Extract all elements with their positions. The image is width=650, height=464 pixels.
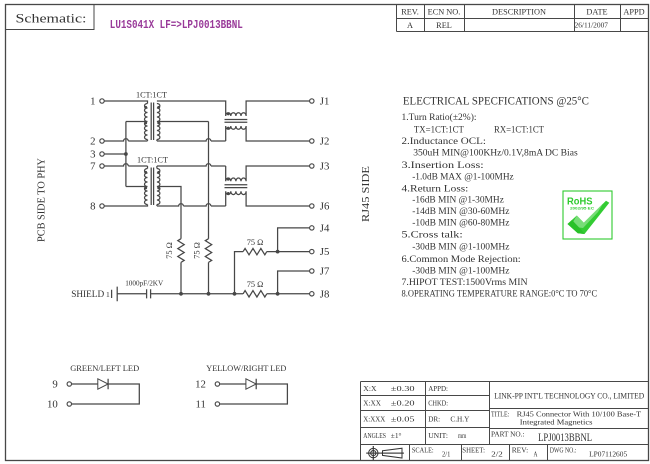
svg-text:RX=1CT:1CT: RX=1CT:1CT bbox=[494, 125, 544, 136]
svg-text:LU1S041X LF=>LPJ0013BBNL: LU1S041X LF=>LPJ0013BBNL bbox=[110, 18, 243, 32]
svg-text:A: A bbox=[534, 449, 538, 458]
svg-text:10: 10 bbox=[47, 399, 58, 411]
svg-text:J8: J8 bbox=[320, 288, 330, 300]
svg-text:7.HIPOT TEST:1500Vrms MIN: 7.HIPOT TEST:1500Vrms MIN bbox=[402, 277, 528, 288]
svg-text:SCALE:: SCALE: bbox=[412, 445, 434, 454]
svg-text:-16dB MIN @1-30MHz: -16dB MIN @1-30MHz bbox=[412, 195, 504, 206]
svg-text:5.Cross talk:: 5.Cross talk: bbox=[402, 230, 463, 241]
svg-text:±0.20: ±0.20 bbox=[391, 398, 415, 407]
svg-text:3.Insertion Loss:: 3.Insertion Loss: bbox=[402, 160, 484, 171]
svg-text:75 Ω: 75 Ω bbox=[247, 238, 264, 247]
svg-text:Schematic:: Schematic: bbox=[16, 11, 87, 25]
svg-text:±1°: ±1° bbox=[391, 431, 402, 440]
svg-text:±0.05: ±0.05 bbox=[391, 414, 415, 423]
svg-text:1.Turn Ratio(±2%):: 1.Turn Ratio(±2%): bbox=[402, 112, 477, 123]
svg-text:3: 3 bbox=[90, 149, 95, 161]
svg-text:X:XXX: X:XXX bbox=[363, 414, 385, 423]
svg-text:X:XX: X:XX bbox=[363, 398, 381, 407]
svg-text:ECN NO.: ECN NO. bbox=[428, 8, 461, 17]
svg-text:DATE: DATE bbox=[586, 8, 607, 17]
svg-text:DWG NO.:: DWG NO.: bbox=[550, 445, 577, 454]
svg-text:6.Common Mode Rejection:: 6.Common Mode Rejection: bbox=[402, 254, 521, 265]
svg-text:J2: J2 bbox=[320, 136, 330, 148]
svg-text:REV:: REV: bbox=[512, 445, 529, 454]
svg-text:LINK-PP INT'L TECHNOLOGY CO.,: LINK-PP INT'L TECHNOLOGY CO., LIMITED bbox=[494, 391, 644, 400]
svg-text:APPD: APPD bbox=[623, 8, 644, 17]
svg-text:CHKD:: CHKD: bbox=[428, 398, 448, 407]
svg-text:REL: REL bbox=[436, 21, 452, 30]
svg-text:11: 11 bbox=[195, 399, 205, 411]
svg-text:UNIT:: UNIT: bbox=[428, 431, 448, 440]
svg-text:TITLE:: TITLE: bbox=[491, 409, 509, 418]
svg-text:12: 12 bbox=[195, 379, 206, 391]
svg-text:4.Return Loss:: 4.Return Loss: bbox=[402, 183, 469, 194]
svg-text:PART NO.:: PART NO.: bbox=[491, 430, 525, 439]
svg-text:-30dB MIN @1-100MHz: -30dB MIN @1-100MHz bbox=[412, 241, 510, 252]
svg-text:ELECTRICAL SPECFICATIONS @25°C: ELECTRICAL SPECFICATIONS @25°C bbox=[403, 94, 589, 108]
svg-text:J6: J6 bbox=[320, 201, 330, 213]
svg-text:2/2: 2/2 bbox=[491, 449, 503, 458]
svg-text:1: 1 bbox=[106, 290, 110, 299]
svg-text:RJ45 SIDE: RJ45 SIDE bbox=[361, 166, 372, 222]
svg-text:LPJ0013BBNL: LPJ0013BBNL bbox=[538, 430, 592, 444]
svg-text:SHEET:: SHEET: bbox=[462, 445, 485, 454]
svg-text:2/1: 2/1 bbox=[442, 449, 450, 458]
svg-text:1CT:1CT: 1CT:1CT bbox=[136, 90, 168, 100]
svg-text:-1.0dB MAX @1-100MHz: -1.0dB MAX @1-100MHz bbox=[412, 171, 514, 182]
svg-text:7: 7 bbox=[90, 161, 96, 173]
svg-text:26/11/2007: 26/11/2007 bbox=[575, 22, 609, 30]
svg-text:2002/95 EC: 2002/95 EC bbox=[570, 206, 594, 211]
svg-text:X:X: X:X bbox=[363, 384, 377, 393]
svg-text:-10dB MIN @60-80MHz: -10dB MIN @60-80MHz bbox=[412, 218, 510, 229]
svg-text:ANGLES: ANGLES bbox=[363, 431, 386, 440]
svg-text:DESCRIPTION: DESCRIPTION bbox=[492, 8, 546, 17]
svg-text:PCB SIDE TO PHY: PCB SIDE TO PHY bbox=[37, 158, 48, 242]
svg-text:Integrated Magnetics: Integrated Magnetics bbox=[520, 418, 593, 427]
svg-text:9: 9 bbox=[52, 379, 57, 391]
svg-text:J3: J3 bbox=[320, 161, 330, 173]
svg-text:±0.30: ±0.30 bbox=[391, 384, 415, 393]
svg-text:J1: J1 bbox=[320, 96, 330, 108]
svg-text:350uH MIN@100KHz/0.1V,8mA DC B: 350uH MIN@100KHz/0.1V,8mA DC Bias bbox=[413, 148, 578, 159]
svg-text:2: 2 bbox=[90, 136, 95, 148]
svg-text:75 Ω: 75 Ω bbox=[247, 280, 264, 289]
svg-text:TX=1CT:1CT: TX=1CT:1CT bbox=[414, 125, 464, 136]
svg-text:C.H.Y: C.H.Y bbox=[450, 414, 469, 423]
svg-text:1: 1 bbox=[90, 96, 95, 108]
svg-text:J4: J4 bbox=[320, 223, 330, 235]
svg-text:-14dB MIN @30-60MHz: -14dB MIN @30-60MHz bbox=[412, 206, 510, 217]
svg-text:75 Ω: 75 Ω bbox=[165, 242, 174, 259]
svg-text:DR:: DR: bbox=[428, 414, 440, 423]
svg-text:A: A bbox=[407, 21, 413, 30]
svg-text:J5: J5 bbox=[320, 246, 330, 258]
svg-text:1000pF/2KV: 1000pF/2KV bbox=[125, 278, 163, 287]
svg-text:8: 8 bbox=[90, 201, 95, 213]
svg-text:REV.: REV. bbox=[401, 8, 419, 17]
svg-text:YELLOW/RIGHT LED: YELLOW/RIGHT LED bbox=[206, 363, 286, 373]
svg-text:GREEN/LEFT LED: GREEN/LEFT LED bbox=[70, 363, 139, 373]
svg-text:mm: mm bbox=[458, 431, 466, 440]
svg-text:-30dB MIN @1-100MHz: -30dB MIN @1-100MHz bbox=[412, 265, 510, 276]
svg-text:J7: J7 bbox=[320, 266, 330, 278]
svg-text:8.OPERATING TEMPERATURE RANGE:: 8.OPERATING TEMPERATURE RANGE:0°C TO 70°… bbox=[402, 289, 598, 300]
svg-text:75 Ω: 75 Ω bbox=[193, 242, 202, 259]
svg-text:SHIELD: SHIELD bbox=[71, 290, 104, 300]
svg-text:1CT:1CT: 1CT:1CT bbox=[137, 154, 169, 164]
svg-text:LP07112605: LP07112605 bbox=[589, 449, 627, 458]
svg-text:APPD:: APPD: bbox=[428, 384, 448, 393]
svg-text:2.Inductance OCL:: 2.Inductance OCL: bbox=[402, 136, 486, 147]
